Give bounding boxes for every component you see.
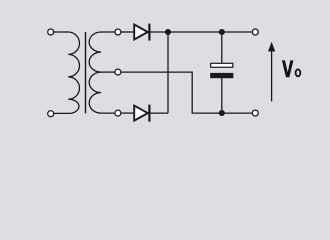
terminal output minus xyxy=(252,110,258,116)
terminal secondary bottom xyxy=(115,110,121,116)
wire capacitor bottom xyxy=(221,78,223,113)
wire primary top lead xyxy=(54,31,68,33)
diode D1 cathode bar xyxy=(148,24,150,41)
terminal primary top xyxy=(48,29,54,35)
capacitor C1 top plate xyxy=(211,63,233,67)
wire top rail xyxy=(149,31,252,33)
junction dot bottom rail / C1 xyxy=(219,110,225,116)
wire D2 cathode to riser xyxy=(149,112,168,114)
capacitor C1 bottom plate xyxy=(211,73,233,77)
arrow Vo head xyxy=(268,42,275,52)
label Vo : letter V xyxy=(282,60,294,77)
arrow Vo line xyxy=(271,51,273,102)
wire center tap to bottom rail xyxy=(121,72,253,113)
inductor primary winding of transformer T1 xyxy=(68,32,79,113)
diode D2 triangle xyxy=(134,106,148,121)
inductor secondary winding lower half xyxy=(89,72,114,113)
wire primary bottom lead xyxy=(54,112,71,114)
wire capacitor top xyxy=(221,32,223,63)
junction dot top rail / C1 xyxy=(219,29,225,35)
diode D1 triangle xyxy=(134,25,148,40)
terminal output plus xyxy=(252,29,258,35)
wire D2 anode xyxy=(121,112,134,114)
inductor secondary winding upper half xyxy=(89,32,115,72)
wire riser from D2 to top rail junction xyxy=(167,32,169,113)
diode D2 cathode bar xyxy=(148,105,150,122)
terminal primary bottom xyxy=(48,111,54,117)
terminal secondary center tap xyxy=(115,69,121,75)
terminal secondary top xyxy=(115,29,121,35)
wire D1 anode xyxy=(121,31,134,33)
transformer core xyxy=(85,32,87,113)
junction dot top rail / D1 xyxy=(165,29,171,35)
wire center tap to terminal xyxy=(101,71,115,73)
label Vo : subscript o xyxy=(295,69,302,78)
